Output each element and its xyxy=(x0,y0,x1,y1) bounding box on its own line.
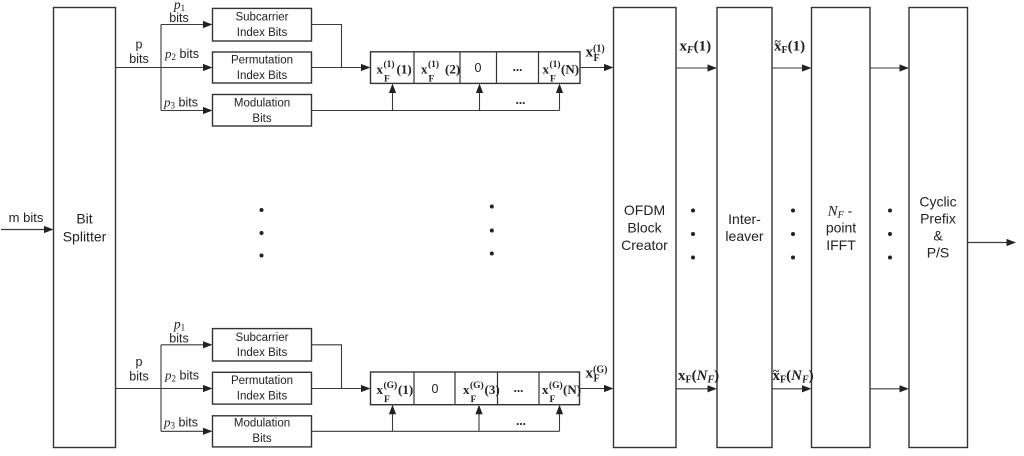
node dots column between Interleaver and IFFT xyxy=(791,209,795,260)
svg-text:Prefix: Prefix xyxy=(920,211,956,227)
block NF-point IFFT xyxy=(812,8,871,448)
svg-text:p: p xyxy=(136,38,143,52)
svg-text:bits: bits xyxy=(129,370,148,384)
label p bits (top) xyxy=(129,38,148,67)
label p1 bits (bottom) xyxy=(169,317,188,346)
svg-text:...: ... xyxy=(514,380,524,395)
svg-text:x: x xyxy=(542,382,549,397)
wire arrow IFFT to Cyclic Prefix (bottom) xyxy=(870,385,909,392)
node dots column between IFFT and Cyclic Prefix xyxy=(888,209,892,260)
wire arrow into Modulation Bits (bottom) xyxy=(161,428,213,435)
svg-text:bits: bits xyxy=(169,332,188,346)
label cell xF(G)(N) xyxy=(542,380,581,405)
wire arrow from Permutation (bottom) into OFDM block array xyxy=(312,385,371,392)
svg-text:Cyclic: Cyclic xyxy=(919,194,956,210)
wire arrow array (bottom) output into OFDM Block Creator xyxy=(580,385,614,392)
wire arrow into Subcarrier Index Bits (bottom) xyxy=(161,341,213,348)
block OFDM symbol array (top) xyxy=(371,52,581,84)
wire arrow OFDM to Interleaver (top) xyxy=(676,64,717,71)
label p bits (bottom) xyxy=(129,355,148,384)
wire arrow into Subcarrier Index Bits (top) xyxy=(161,21,213,28)
svg-text:x: x xyxy=(543,61,550,76)
wire Subcarrier (top) output elbow down to array input line xyxy=(312,25,342,68)
svg-text:...: ... xyxy=(516,413,526,428)
label cell xF(G)(1) xyxy=(377,380,414,405)
svg-text:p2 bits: p2 bits xyxy=(164,368,199,384)
svg-text:x: x xyxy=(377,61,384,76)
block Subcarrier Index Bits (bottom) xyxy=(213,329,312,361)
block Interleaver xyxy=(717,8,772,448)
svg-text:(G): (G) xyxy=(549,380,563,391)
svg-text:F: F xyxy=(594,53,600,64)
svg-text:(1): (1) xyxy=(428,59,439,70)
svg-text:bits: bits xyxy=(169,11,188,25)
svg-text:F: F xyxy=(594,374,600,385)
svg-text:(1): (1) xyxy=(384,59,395,70)
svg-text:F: F xyxy=(384,395,390,405)
svg-text:p: p xyxy=(136,355,143,369)
wire arrow IFFT to Cyclic Prefix (top) xyxy=(870,64,909,71)
svg-text:x: x xyxy=(463,382,470,397)
svg-text:p3 bits: p3 bits xyxy=(163,415,198,431)
svg-text:F: F xyxy=(471,395,477,405)
svg-text:Bit: Bit xyxy=(76,211,92,227)
node dots column between OFDM and Interleaver xyxy=(691,209,695,260)
svg-text:~: ~ xyxy=(775,34,782,48)
wire up-arrow 2 into array (top) xyxy=(476,84,483,111)
svg-text:Modulation: Modulation xyxy=(234,97,290,109)
svg-text:(1): (1) xyxy=(397,61,412,76)
svg-text:xF(1): xF(1) xyxy=(680,38,712,56)
wire arrow into Permutation Index Bits (bottom) xyxy=(161,385,213,392)
block Modulation Bits (top) xyxy=(213,95,312,127)
svg-text:leaver: leaver xyxy=(725,228,763,244)
wire up-arrow 3 into array (bottom) xyxy=(556,405,563,432)
svg-text:Index Bits: Index Bits xyxy=(237,347,288,359)
svg-text:p1: p1 xyxy=(173,317,185,333)
block Permutation Index Bits (top) xyxy=(213,52,312,83)
svg-text:0: 0 xyxy=(475,61,482,75)
wire up-arrow 1 into array (bottom) xyxy=(389,405,396,432)
svg-text:F: F xyxy=(429,74,435,84)
wire arrow into Permutation Index Bits (top) xyxy=(161,64,213,71)
svg-text:P/S: P/S xyxy=(927,245,950,261)
wire up-arrow 1 into array (top) xyxy=(389,84,396,111)
wire m bits input arrow xyxy=(1,210,54,233)
svg-text:OFDM: OFDM xyxy=(624,202,665,218)
svg-text:...: ... xyxy=(513,59,523,74)
svg-text:m bits: m bits xyxy=(9,210,44,225)
svg-text:(2): (2) xyxy=(445,61,460,76)
svg-text:p2 bits: p2 bits xyxy=(164,46,199,62)
label xF(G) output of bottom array xyxy=(586,364,608,384)
node dots column under index-bit boxes xyxy=(260,208,264,258)
svg-text:Permutation: Permutation xyxy=(231,375,293,387)
wire final output arrow xyxy=(968,239,1017,246)
svg-text:(3): (3) xyxy=(485,382,500,397)
wire Modulation (top) output bus under array xyxy=(312,110,560,112)
svg-text:p3 bits: p3 bits xyxy=(163,95,198,111)
block Subcarrier Index Bits (top) xyxy=(213,8,312,41)
block Permutation Index Bits (bottom) xyxy=(213,372,312,404)
svg-text:(G): (G) xyxy=(384,380,398,391)
svg-text:(1): (1) xyxy=(550,59,561,70)
svg-text:Subcarrier: Subcarrier xyxy=(235,11,288,23)
block OFDM Block Creator xyxy=(614,8,677,448)
svg-text:x: x xyxy=(377,382,384,397)
wire bottom junction vertical xyxy=(160,345,162,432)
svg-text:(G): (G) xyxy=(470,380,484,391)
svg-text:F: F xyxy=(550,395,556,405)
svg-text:&: & xyxy=(933,228,943,244)
svg-text:0: 0 xyxy=(432,382,439,396)
label cell xF(1)(1) xyxy=(377,59,412,84)
svg-text:Subcarrier: Subcarrier xyxy=(235,332,288,344)
label cell xF(1)(2) xyxy=(421,59,460,84)
wire arrow OFDM to Interleaver (bottom) xyxy=(676,385,717,392)
svg-text:(1): (1) xyxy=(398,382,413,397)
block Modulation Bits (bottom) xyxy=(213,416,312,447)
svg-text:...: ... xyxy=(516,92,526,107)
svg-text:Splitter: Splitter xyxy=(63,229,107,245)
label cell xF(1)(N) xyxy=(543,59,580,84)
svg-text:bits: bits xyxy=(129,52,148,66)
svg-text:(N): (N) xyxy=(561,61,579,76)
wire arrow into Modulation Bits (top) xyxy=(161,107,213,114)
svg-text:Inter-: Inter- xyxy=(728,211,761,227)
svg-text:xF(NF): xF(NF) xyxy=(678,368,719,386)
svg-text:Bits: Bits xyxy=(252,433,271,445)
svg-text:Creator: Creator xyxy=(621,237,668,253)
wire arrow Interleaver to IFFT (bottom) xyxy=(772,385,812,392)
wire p bits from Bit Splitter to top junction xyxy=(116,67,162,69)
svg-text:Permutation: Permutation xyxy=(231,55,293,67)
wire Subcarrier (bottom) output elbow down to array input line xyxy=(312,345,342,389)
label x~F(1) between Interleaver and IFFT xyxy=(774,34,805,56)
svg-text:x: x xyxy=(421,61,428,76)
svg-text:F: F xyxy=(550,74,556,84)
wire arrow from Permutation (top) into OFDM block array xyxy=(312,64,371,71)
block OFDM symbol array (bottom) xyxy=(371,372,580,405)
label p1 bits (top) xyxy=(169,0,188,25)
svg-text:Index Bits: Index Bits xyxy=(237,391,288,403)
svg-text:(N): (N) xyxy=(563,382,581,397)
wire Modulation (bottom) output bus under array xyxy=(312,430,560,432)
wire p bits from Bit Splitter to bottom junction xyxy=(116,388,162,390)
wire up-arrow 3 into array (top) xyxy=(556,84,563,111)
svg-text:Index Bits: Index Bits xyxy=(237,27,288,39)
svg-text:IFFT: IFFT xyxy=(826,237,856,253)
svg-text:point: point xyxy=(826,220,856,236)
block Bit Splitter xyxy=(54,8,116,448)
label xF(1) output of top array xyxy=(586,44,605,64)
svg-text:~: ~ xyxy=(773,364,780,378)
svg-text:Block: Block xyxy=(627,220,662,236)
wire arrow Interleaver to IFFT (top) xyxy=(772,64,812,71)
svg-text:Bits: Bits xyxy=(252,113,271,125)
wire top junction vertical xyxy=(160,25,162,111)
svg-text:F: F xyxy=(384,74,390,84)
svg-text:Modulation: Modulation xyxy=(234,417,290,429)
label x~F(NF) between Interleaver and IFFT xyxy=(773,364,814,386)
svg-text:Index Bits: Index Bits xyxy=(237,70,288,82)
node dots column under array xyxy=(490,205,494,256)
block Cyclic Prefix and P/S xyxy=(909,8,968,448)
label cell xF(G)(3) xyxy=(463,380,500,405)
wire up-arrow 2 into array (bottom) xyxy=(475,405,482,432)
wire arrow array (top) output into OFDM Block Creator xyxy=(580,64,614,71)
